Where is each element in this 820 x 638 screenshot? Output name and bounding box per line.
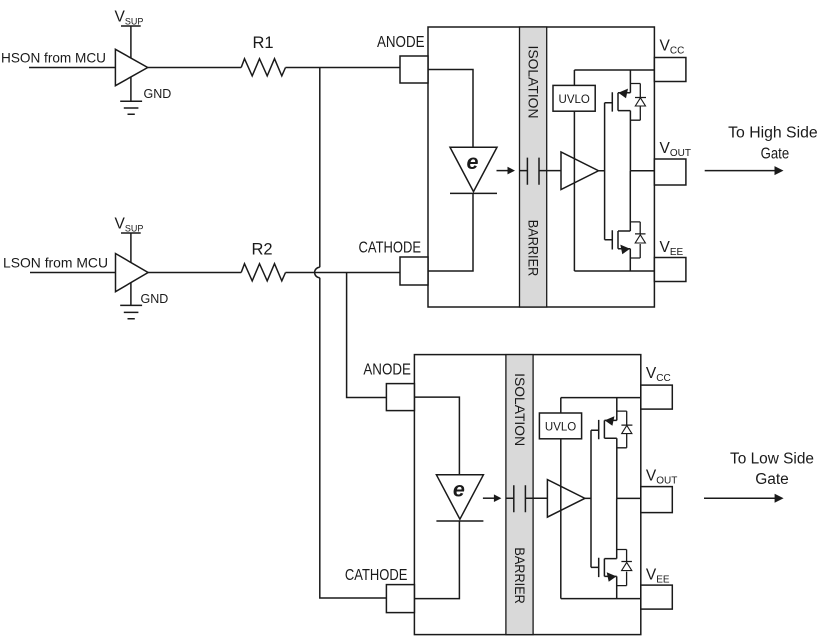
IC U2 low-side isolated gate driver: [345, 355, 677, 635]
wire R2 to CATHODE: [286, 272, 401, 274]
svg-text:HSON from MCU: HSON from MCU: [1, 50, 106, 66]
ground top driver: [120, 77, 142, 114]
svg-text:To Low Side: To Low Side: [730, 451, 814, 468]
svg-text:LSON from MCU: LSON from MCU: [3, 254, 108, 270]
buffer driver A1: [115, 49, 147, 85]
svg-text:Gate: Gate: [761, 146, 790, 163]
wire R2 net down branch to low-side ANODE: [347, 273, 387, 398]
wire hop arc: [315, 267, 320, 277]
svg-text:R2: R2: [252, 241, 273, 259]
wire HSON input: [29, 67, 115, 69]
IC U1 high-side isolated gate driver: [359, 27, 691, 307]
svg-text:R1: R1: [253, 34, 274, 52]
wire driver2 output: [148, 272, 241, 274]
svg-text:VSUP: VSUP: [115, 215, 144, 233]
wire low-side output arrow: [704, 497, 776, 499]
svg-text:VSUP: VSUP: [115, 8, 144, 26]
VSUP supply bottom driver: [121, 233, 141, 263]
svg-text:Gate: Gate: [755, 471, 789, 488]
svg-text:GND: GND: [141, 292, 169, 306]
wire high-side output arrow: [705, 170, 776, 172]
wire R1 to ANODE: [286, 67, 401, 69]
wire LSON input: [30, 272, 116, 274]
ground bottom driver: [120, 282, 142, 319]
svg-text:To High Side: To High Side: [728, 125, 818, 142]
svg-text:GND: GND: [144, 87, 172, 101]
VSUP supply top driver: [121, 26, 141, 58]
wire R1 net down branch with hop over R2 wire: [320, 68, 387, 599]
wire driver1 output: [148, 67, 242, 69]
buffer driver A2: [116, 254, 149, 292]
